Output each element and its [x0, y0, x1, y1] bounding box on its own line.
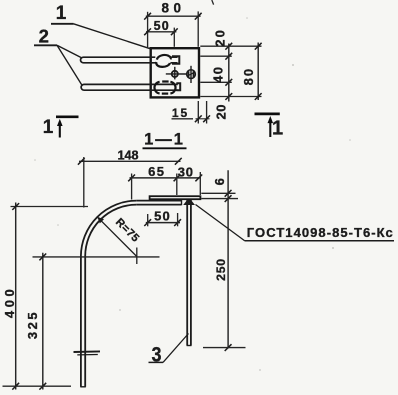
scan speckles — [34, 17, 351, 371]
top bar end bracket — [172, 56, 179, 63]
svg-text:400: 400 — [2, 286, 17, 319]
bent rebar: arc — [81, 201, 137, 257]
svg-text:3: 3 — [152, 344, 162, 367]
svg-text:80: 80 — [161, 0, 185, 15]
bent rebar: vertical leg — [80, 257, 82, 387]
svg-text:40: 40 — [211, 66, 226, 83]
centre cross — [33, 256, 160, 258]
svg-text:148: 148 — [117, 149, 138, 163]
bottom extension — [3, 385, 72, 387]
svg-text:1: 1 — [272, 118, 283, 140]
dim 50 top — [146, 31, 176, 33]
dim 80 top — [146, 15, 201, 17]
right chain 20/40/20 dim line — [228, 44, 230, 102]
dim 148 — [79, 160, 181, 162]
svg-text:20: 20 — [213, 28, 228, 47]
svg-text:30: 30 — [178, 165, 194, 180]
svg-text:250: 250 — [214, 258, 228, 281]
svg-text:15: 15 — [172, 106, 189, 120]
anchor stud hatched circle — [187, 70, 196, 79]
weld symbol arcs on top bar — [157, 55, 171, 60]
svg-text:6: 6 — [212, 178, 227, 185]
svg-text:80: 80 — [241, 67, 256, 85]
svg-text:2: 2 — [39, 25, 49, 46]
dim 15 bottom — [172, 118, 194, 120]
stray mark top — [212, 0, 214, 5]
svg-text:1: 1 — [43, 117, 54, 138]
svg-text:1: 1 — [56, 3, 67, 24]
svg-text:50: 50 — [154, 209, 171, 224]
dim 65 / 30 — [130, 177, 201, 179]
plug weld circle with cross — [172, 71, 178, 77]
rebar 2 top bar (plan) — [81, 57, 157, 63]
svg-text:1—1: 1—1 — [144, 130, 185, 148]
title underline — [143, 147, 187, 149]
label 1 leader — [51, 23, 74, 25]
section mark left — [56, 115, 79, 118]
dim 50 (section) — [146, 222, 180, 224]
plate edge view — [150, 196, 201, 199]
plate (top view) — [151, 48, 199, 97]
svg-text:65: 65 — [148, 164, 165, 179]
svg-text:50: 50 — [154, 19, 170, 33]
label 3 leader — [149, 361, 164, 363]
bent rebar: horizontal run — [137, 200, 182, 202]
GOST leader — [196, 205, 245, 241]
extension lines right — [200, 45, 261, 47]
section mark right — [255, 113, 280, 116]
svg-text:325: 325 — [25, 310, 40, 339]
anchor bar 3 vertical — [186, 200, 188, 346]
rebar 2 bottom bar (plan) — [81, 84, 178, 90]
svg-text:ГОСТ14098-85-Т6-Кс: ГОСТ14098-85-Т6-Кс — [247, 225, 394, 240]
weld fillet at plate — [183, 200, 195, 205]
dim 6 + 250 shared vertical line — [227, 170, 229, 348]
148 left extension (virtual corner) — [83, 157, 85, 208]
dim 400 — [15, 203, 17, 390]
label 2 leader — [34, 44, 57, 46]
break marks on left leg — [74, 350, 101, 353]
dashed weld stadium on bottom bar — [154, 82, 159, 94]
R=75 leader — [98, 217, 137, 256]
dim 325 — [42, 253, 44, 390]
bottom bar end bracket — [176, 83, 180, 90]
dim 80 right line — [257, 43, 259, 101]
svg-text:20: 20 — [213, 104, 228, 119]
